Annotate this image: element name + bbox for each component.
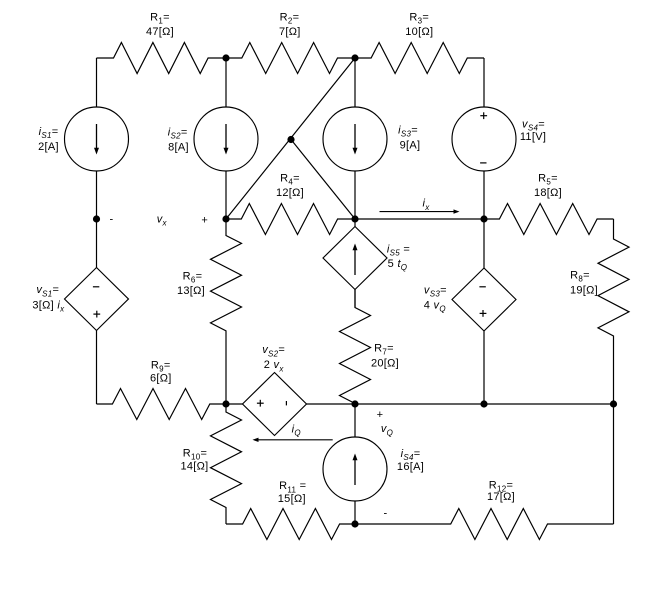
voltage annotation v_x xyxy=(110,214,209,228)
resistor R2 xyxy=(226,11,355,73)
node vx+ (R4/R6/diagonal) xyxy=(222,215,229,222)
wire R8 to bottom-right corner xyxy=(613,404,615,524)
resistor R4 xyxy=(226,172,355,234)
wire iS3 to node D xyxy=(354,171,356,219)
node I (R8/R12 branch) xyxy=(610,400,617,407)
resistor R12 xyxy=(355,479,614,539)
svg-text:12[Ω]: 12[Ω] xyxy=(276,187,304,199)
svg-text:11[V]: 11[V] xyxy=(520,131,546,143)
node B (R1/R2/iS2) xyxy=(222,54,229,61)
resistor R8 xyxy=(570,219,629,404)
wire R3 corner to vS4 xyxy=(483,58,485,107)
wire vS2 to node H xyxy=(307,403,356,405)
dependent current source iS5 xyxy=(323,227,410,290)
svg-text:18[Ω]: 18[Ω] xyxy=(534,187,562,199)
svg-text:47[Ω]: 47[Ω] xyxy=(146,26,174,38)
wire vS3 to node G xyxy=(483,331,485,404)
wire node H to node G to node I xyxy=(355,403,614,405)
voltage source vS4 xyxy=(452,107,546,171)
svg-text:-: - xyxy=(384,507,388,519)
resistor R7 xyxy=(340,290,400,405)
svg-text:13[Ω]: 13[Ω] xyxy=(177,285,205,297)
wire iS2 to node vx+ xyxy=(225,171,227,219)
svg-text:10[Ω]: 10[Ω] xyxy=(405,26,433,38)
node J (diagonal junction) xyxy=(287,136,294,143)
wire node H to iS4 xyxy=(354,404,356,437)
wire node C to iS3 xyxy=(354,58,356,107)
dependent voltage source vS2 xyxy=(243,344,307,435)
wire vS1 to R9 corner xyxy=(96,331,98,405)
wire iS5 to R7 xyxy=(354,290,356,308)
wire node E to vS3 xyxy=(483,219,485,268)
svg-text:14[Ω]: 14[Ω] xyxy=(180,460,208,472)
svg-text:7[Ω]: 7[Ω] xyxy=(279,26,301,38)
node F (R9/vS2/R10) xyxy=(222,400,229,407)
voltage annotation v_Q xyxy=(377,409,394,519)
svg-text:15[Ω]: 15[Ω] xyxy=(278,493,306,505)
svg-text:19[Ω]: 19[Ω] xyxy=(570,284,598,296)
svg-text:-: - xyxy=(110,214,114,226)
svg-text:16[A]: 16[A] xyxy=(397,461,424,473)
node H (vS2/R7/iS4) xyxy=(351,400,358,407)
resistor R1 xyxy=(97,11,227,73)
svg-text:9[A]: 9[A] xyxy=(400,140,421,152)
wire vS4 to node E xyxy=(483,171,485,219)
node G (vS3 bottom) xyxy=(480,400,487,407)
current source iS3 xyxy=(323,107,420,171)
svg-text:+: + xyxy=(377,409,384,421)
wire node B to iS2 xyxy=(225,58,227,107)
wire diagonal junction J to node D xyxy=(291,140,355,220)
svg-text:20[Ω]: 20[Ω] xyxy=(371,358,399,370)
node C (R2/R3/diagonal) xyxy=(351,54,358,61)
current source iS4 xyxy=(323,437,424,501)
resistor R11 xyxy=(226,480,355,539)
wire node A to vS1 xyxy=(96,219,98,268)
svg-text:8[A]: 8[A] xyxy=(168,142,189,154)
dependent voltage source vS1 xyxy=(32,268,128,331)
wire node D to iS5 xyxy=(354,219,356,227)
current source iS2 xyxy=(168,107,258,171)
wire top-left corner to iS1 xyxy=(96,58,98,107)
svg-text:2[A]: 2[A] xyxy=(38,141,59,153)
current annotation i_Q xyxy=(253,424,333,443)
resistor R10 xyxy=(180,404,241,524)
resistor R9 xyxy=(97,359,227,419)
wire mid node D to node E xyxy=(355,218,484,220)
svg-text:6[Ω]: 6[Ω] xyxy=(150,372,172,384)
node A (iS1/vS1) with v_x minus xyxy=(93,215,100,222)
wire iS4 to bottom node xyxy=(354,501,356,524)
wire diagonal node C to node vx+ xyxy=(226,58,355,219)
node D (iS3/R4/iS5) xyxy=(351,215,358,222)
svg-text:17[Ω]: 17[Ω] xyxy=(487,491,515,503)
resistor R3 xyxy=(355,11,484,73)
resistor R6 xyxy=(177,219,242,404)
dependent voltage source vS3 xyxy=(424,268,516,331)
current source iS1 xyxy=(38,107,128,171)
current annotation i_x xyxy=(380,198,460,214)
node K (iS4/R11/R12) xyxy=(351,520,358,527)
resistor R5 xyxy=(484,172,614,234)
wire node F to vS2 xyxy=(226,403,243,405)
node E (vS4/R5/vS3) xyxy=(480,215,487,222)
wire iS1 to node A xyxy=(96,171,98,219)
svg-text:+: + xyxy=(201,215,208,227)
